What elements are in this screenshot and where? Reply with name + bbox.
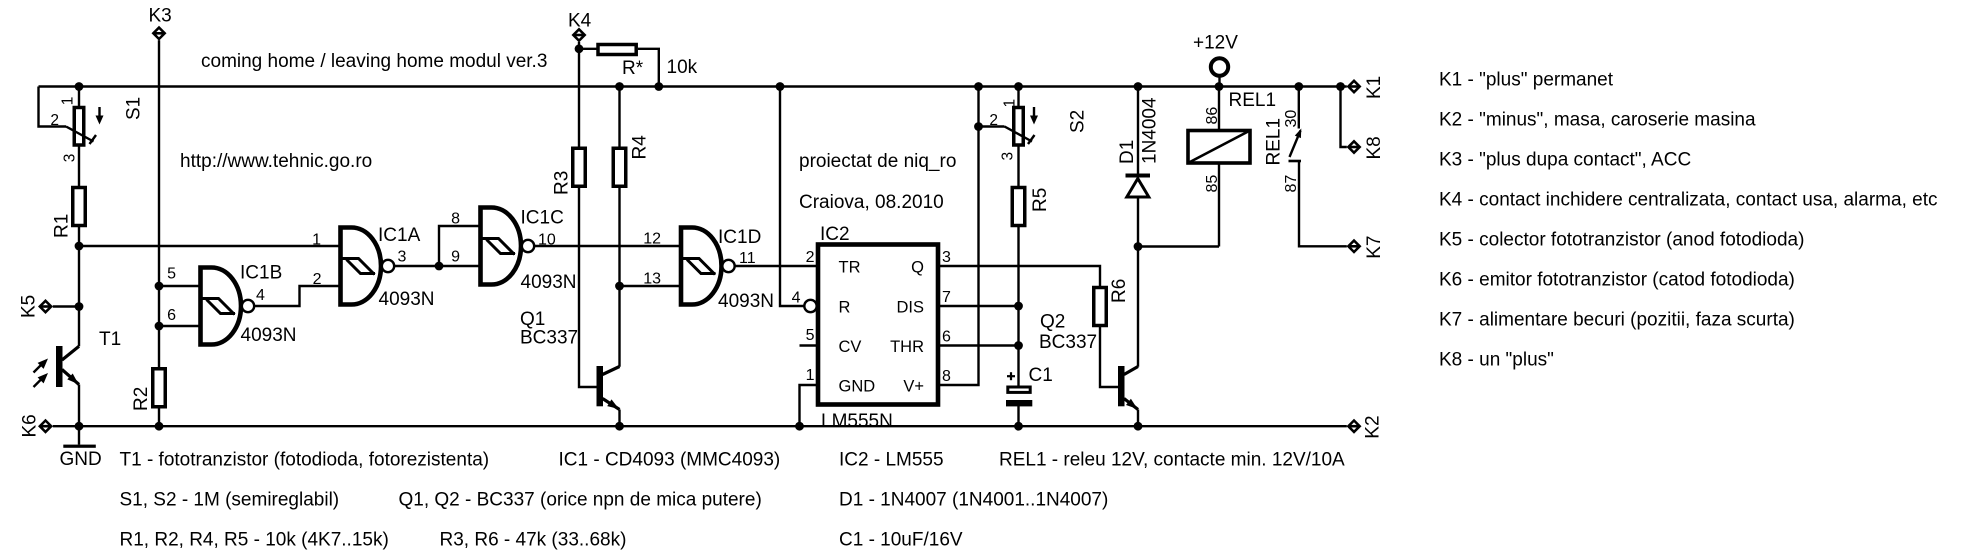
resistor R5: [1012, 188, 1025, 226]
wire T1 emitter to ground rail: [78, 385, 80, 427]
svg-text:Q1, Q2 - BC337 (orice npn de m: Q1, Q2 - BC337 (orice npn de mica putere…: [399, 490, 762, 511]
terminal K7: [1347, 239, 1362, 254]
terminal K6: [38, 419, 53, 434]
svg-text:2: 2: [806, 249, 815, 266]
junction relay coil rail node: [1215, 82, 1224, 91]
junction S2 wiper node: [974, 122, 983, 131]
svg-text:K1: K1: [1364, 76, 1385, 99]
svg-text:8: 8: [451, 211, 460, 228]
wire S1 pin1: [78, 87, 80, 108]
svg-text:V+: V+: [903, 378, 924, 396]
wire IC1A output to IC1C pin9: [395, 265, 481, 267]
svg-text:1: 1: [1002, 99, 1019, 108]
junction Rstar rail node: [654, 82, 663, 91]
svg-text:6: 6: [942, 329, 951, 346]
wire +12V top supply rail: [39, 85, 1347, 87]
wire relay pin86: [1218, 87, 1220, 131]
junction Q1 emitter ground node: [615, 422, 624, 431]
wire V+ vertical: [940, 87, 979, 386]
junction DIS node: [1014, 302, 1023, 311]
wire Q1 emitter to ground rail: [618, 410, 620, 427]
wire relay pin85: [1218, 163, 1220, 247]
svg-text:K5: K5: [19, 295, 40, 318]
terminal K5: [38, 299, 53, 314]
svg-text:D1: D1: [1117, 140, 1138, 164]
svg-text:8: 8: [942, 368, 951, 385]
wire S1 pin3 to R1: [78, 145, 80, 188]
wire Q2 collector to relay node: [1137, 247, 1139, 367]
svg-text:1N4004: 1N4004: [1140, 97, 1161, 164]
svg-text:R4: R4: [630, 135, 651, 160]
svg-text:3: 3: [1000, 152, 1017, 161]
junction IC2 GND rail node: [795, 422, 804, 431]
nand gate IC1C: [481, 208, 535, 285]
junction R2 ground node: [155, 422, 164, 431]
wire R5 to C1: [1017, 226, 1019, 387]
svg-text:GND: GND: [839, 378, 876, 396]
wire R-pin vertical: [780, 87, 804, 307]
svg-text:+12V: +12V: [1193, 33, 1238, 54]
wire ground bottom rail: [53, 425, 1347, 427]
junction R4 rail node: [615, 82, 624, 91]
trimmer S2 body: [1014, 108, 1024, 146]
svg-text:6: 6: [167, 307, 176, 324]
wire IC1D pin13: [620, 285, 682, 287]
svg-text:4093N: 4093N: [379, 289, 435, 310]
junction R-pin rail node: [776, 82, 785, 91]
svg-text:K3 - "plus dupa contact", ACC: K3 - "plus dupa contact", ACC: [1439, 150, 1691, 171]
svg-text:R*: R*: [622, 58, 644, 79]
svg-text:R: R: [839, 299, 851, 317]
trimmer S1 body: [74, 108, 84, 146]
wire K8 branch: [1341, 87, 1347, 148]
junction D1 rail node: [1134, 82, 1143, 91]
wire S2 pin1: [1017, 87, 1019, 108]
svg-text:THR: THR: [890, 338, 924, 356]
svg-text:R1: R1: [52, 214, 73, 238]
relay REL1 coil: [1188, 131, 1250, 164]
wire IC1C pin8 feedback: [439, 226, 481, 266]
svg-text:IC2 - LM555: IC2 - LM555: [839, 450, 944, 471]
svg-text:10k: 10k: [667, 57, 698, 78]
svg-text:http://www.tehnic.go.ro: http://www.tehnic.go.ro: [180, 151, 372, 172]
svg-text:K2 - "minus", masa, caroserie: K2 - "minus", masa, caroserie masina: [1439, 110, 1756, 131]
svg-text:IC1 - CD4093 (MMC4093): IC1 - CD4093 (MMC4093): [559, 450, 781, 471]
capacitor C1: [1006, 387, 1032, 406]
wire Rstar right lead: [638, 49, 659, 87]
transistor Q1: [597, 366, 620, 410]
svg-text:7: 7: [942, 289, 951, 306]
junction Q2 emitter ground node: [1134, 422, 1143, 431]
svg-text:Q: Q: [911, 259, 924, 277]
wire K3 to IC1B pin5 node: [158, 40, 160, 286]
svg-text:2: 2: [313, 271, 322, 288]
svg-text:30: 30: [1283, 110, 1300, 128]
svg-text:1: 1: [806, 367, 815, 384]
wire R2 to ground rail: [158, 407, 160, 427]
wire Q2 emitter to ground rail: [1137, 410, 1139, 427]
junction V+ rail node: [974, 82, 983, 91]
relay contact 87 bar: [1289, 160, 1302, 163]
svg-text:S2: S2: [1068, 110, 1089, 133]
svg-text:D1 - 1N4007 (1N4001..1N4007): D1 - 1N4007 (1N4001..1N4007): [839, 490, 1108, 511]
wire node A to T1 collector: [78, 246, 80, 346]
svg-text:K8 - un "plus": K8 - un "plus": [1439, 350, 1554, 371]
IC2 R-pin inversion bubble: [804, 300, 816, 312]
supply +12V terminal: [1211, 58, 1228, 75]
wire IC2 THR to node: [940, 344, 1019, 346]
resistor R* body: [598, 45, 636, 55]
trimmer S1 adjust arrow: [98, 107, 100, 119]
junction IC1D pin13 node: [615, 282, 624, 291]
label C1 plus: [1007, 375, 1015, 377]
svg-text:4: 4: [256, 287, 265, 304]
svg-text:R3: R3: [552, 171, 573, 195]
svg-text:4: 4: [792, 290, 801, 307]
terminal K3: [152, 26, 167, 41]
wire D1 cathode: [1137, 87, 1139, 174]
svg-text:R6: R6: [1109, 279, 1130, 303]
wire S2 wiper horizontal: [979, 125, 1005, 127]
wire IC1C output to IC1D pin12: [535, 245, 681, 247]
svg-text:Q2: Q2: [1040, 312, 1065, 333]
junction IC1B pin6 node: [155, 322, 164, 331]
svg-text:coming home / leaving home mod: coming home / leaving home modul ver.3: [201, 51, 547, 72]
wire IC2 Q to R6: [940, 266, 1100, 289]
terminal K1: [1347, 79, 1362, 94]
svg-text:GND: GND: [60, 449, 102, 470]
phototransistor T1: [56, 346, 79, 387]
junction D1/relay/Q2 node: [1134, 242, 1143, 251]
wire contact pin87 to K7: [1299, 161, 1347, 246]
wire R1 to node A: [78, 226, 80, 247]
svg-text:IC1B: IC1B: [240, 263, 282, 284]
wire R3 to Q1 base: [579, 186, 597, 387]
wire IC2 GND to rail: [800, 385, 818, 426]
junction THR node: [1014, 341, 1023, 350]
relay REL1 contact blade: [1290, 131, 1301, 158]
wire K4 vertical to R3: [578, 42, 580, 149]
wire Rstar left lead: [579, 48, 597, 50]
svg-text:1: 1: [60, 97, 77, 106]
junction IC1A output node: [435, 262, 444, 271]
junction K5 node: [75, 302, 84, 311]
svg-text:9: 9: [451, 249, 460, 266]
svg-text:Craiova, 08.2010: Craiova, 08.2010: [799, 192, 944, 213]
wire K5 to collector line: [53, 305, 79, 307]
junction contact-30 rail node: [1294, 82, 1303, 91]
svg-text:5: 5: [167, 266, 176, 283]
wire R4 to Q1 collector: [618, 186, 620, 367]
svg-text:2: 2: [989, 112, 998, 129]
junction S2 pin1 rail node: [1014, 82, 1023, 91]
svg-text:K6 - emitor fototranzistor (ca: K6 - emitor fototranzistor (catod fotodi…: [1439, 270, 1795, 291]
svg-text:IC1C: IC1C: [521, 208, 564, 229]
svg-text:K4 - contact inchidere central: K4 - contact inchidere centralizata, con…: [1439, 190, 1937, 211]
nand gate IC1A: [341, 228, 395, 305]
svg-text:TR: TR: [839, 259, 861, 277]
svg-text:K4: K4: [568, 10, 592, 31]
trimmer S1 wiper: [66, 127, 94, 142]
wire contact pin30: [1298, 87, 1300, 129]
svg-text:K1 - "plus" permanet: K1 - "plus" permanet: [1439, 70, 1614, 91]
wire D1 anode to node: [1137, 198, 1139, 246]
nand gate IC1B: [201, 268, 255, 345]
diode D1: [1126, 174, 1151, 198]
svg-text:4093N: 4093N: [241, 325, 297, 346]
svg-text:86: 86: [1204, 107, 1221, 125]
wire S2 pin3 to R5: [1017, 145, 1019, 188]
svg-text:BC337: BC337: [1039, 332, 1097, 353]
wire +12V to rail: [1218, 75, 1220, 86]
ground GND symbol: [78, 426, 80, 444]
wire C1 to ground rail: [1017, 406, 1019, 426]
svg-text:4093N: 4093N: [718, 291, 774, 312]
T1 light arrow 1: [34, 363, 44, 373]
resistor R6: [1094, 288, 1107, 326]
wire IC1B pin5 stub: [159, 285, 200, 287]
svg-text:S1, S2 - 1M (semireglabil): S1, S2 - 1M (semireglabil): [120, 490, 340, 511]
svg-text:K6: K6: [20, 414, 41, 437]
wire IC1B inputs to R2: [158, 286, 160, 369]
junction K6 node: [75, 422, 84, 431]
svg-text:5: 5: [806, 327, 815, 344]
svg-text:K7 - alimentare becuri (poziti: K7 - alimentare becuri (pozitii, faza sc…: [1439, 310, 1795, 331]
junction IC1B pin5 node: [155, 282, 164, 291]
svg-text:REL1: REL1: [1229, 90, 1277, 111]
resistor R3: [573, 148, 586, 186]
svg-text:S1: S1: [124, 97, 145, 120]
wire IC2 CV stub: [800, 344, 818, 346]
trimmer S2 wiper diagonal: [1005, 127, 1033, 142]
svg-text:BC337: BC337: [520, 328, 578, 349]
resistor R1: [73, 188, 86, 226]
resistor R2: [153, 369, 166, 407]
svg-text:K3: K3: [149, 6, 172, 27]
svg-text:87: 87: [1283, 175, 1300, 193]
svg-text:K2: K2: [1363, 415, 1384, 438]
svg-text:12: 12: [643, 231, 661, 248]
svg-text:3: 3: [62, 154, 79, 163]
svg-text:R5: R5: [1030, 188, 1051, 212]
junction S1 pin1 node: [75, 82, 84, 91]
wire R4 top: [618, 87, 620, 150]
nand gate IC1D: [681, 228, 735, 305]
wire relay coil return: [1138, 245, 1219, 247]
transistor Q2: [1118, 366, 1138, 410]
wire R6 to Q2 base: [1100, 326, 1118, 388]
svg-text:13: 13: [643, 271, 661, 288]
junction K4/Rstar node: [575, 44, 584, 53]
junction C1 ground node: [1014, 422, 1023, 431]
svg-text:K8: K8: [1364, 136, 1385, 159]
svg-text:R3, R6 - 47k (33..68k): R3, R6 - 47k (33..68k): [440, 530, 627, 551]
svg-text:REL1: REL1: [1264, 118, 1285, 166]
ic IC2 body: [818, 245, 938, 405]
svg-text:IC1D: IC1D: [718, 227, 761, 248]
T1 light arrow 2: [34, 378, 44, 388]
terminal K8: [1347, 140, 1362, 155]
wire S1 pin2 bracket: [39, 87, 67, 127]
terminal K4: [572, 28, 587, 43]
svg-text:1: 1: [312, 232, 321, 249]
svg-text:T1: T1: [99, 329, 121, 350]
svg-text:4093N: 4093N: [521, 272, 577, 293]
svg-text:K7: K7: [1364, 236, 1385, 259]
trimmer S2 adjust arrow: [1033, 107, 1035, 119]
svg-text:CV: CV: [839, 338, 862, 356]
svg-text:IC2: IC2: [820, 224, 850, 245]
svg-text:K5 - colector fototranzistor (: K5 - colector fototranzistor (anod fotod…: [1439, 230, 1804, 251]
svg-text:C1 - 10uF/16V: C1 - 10uF/16V: [839, 530, 963, 551]
svg-text:DIS: DIS: [896, 299, 924, 317]
svg-text:LM555N: LM555N: [821, 411, 893, 432]
svg-text:C1: C1: [1029, 365, 1053, 386]
resistor R4: [613, 148, 626, 186]
svg-text:3: 3: [942, 249, 951, 266]
svg-text:2: 2: [50, 112, 59, 129]
svg-text:3: 3: [398, 249, 407, 266]
wire IC2 DIS to node: [940, 305, 1019, 307]
wire IC1B pin6 stub: [159, 325, 200, 327]
svg-text:REL1 - releu 12V, contacte min: REL1 - releu 12V, contacte min. 12V/10A: [999, 450, 1345, 471]
svg-text:R1, R2, R4, R5 - 10k (4K7..15k: R1, R2, R4, R5 - 10k (4K7..15k): [120, 530, 389, 551]
svg-text:IC1A: IC1A: [378, 225, 421, 246]
junction node A (R1/IC1A.1): [75, 242, 84, 251]
wire node A to IC1A pin1: [79, 245, 340, 247]
terminal K2: [1347, 419, 1362, 434]
wire IC1B output to IC1A pin2: [255, 286, 340, 306]
junction K8 branch node: [1336, 82, 1345, 91]
svg-text:11: 11: [739, 250, 756, 267]
svg-text:R2: R2: [131, 387, 152, 411]
wire IC1D output to IC2 TR: [736, 265, 818, 267]
svg-text:T1 - fototranzistor (fotodioda: T1 - fototranzistor (fotodioda, fotorezi…: [120, 450, 490, 471]
svg-text:proiectat de niq_ro: proiectat de niq_ro: [799, 151, 956, 172]
